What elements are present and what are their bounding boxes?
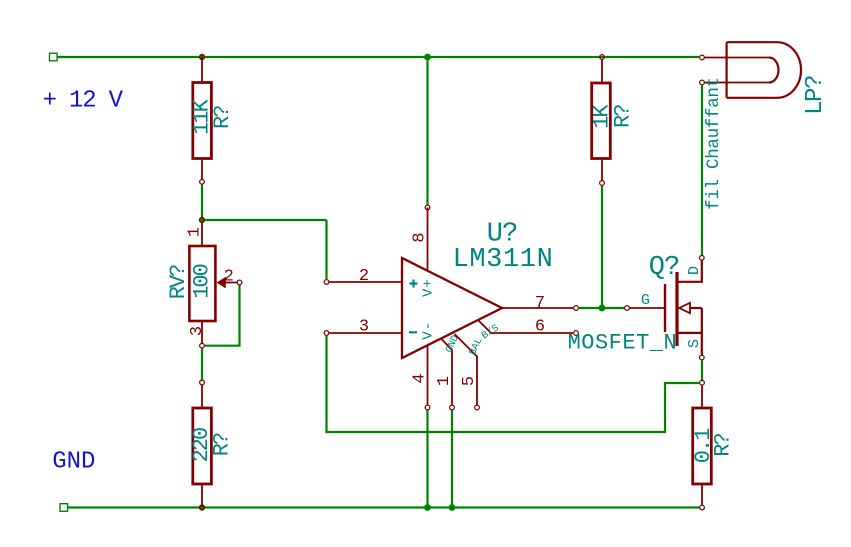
- junction gnd bus pin1: [449, 504, 456, 511]
- wire V+ supply: [426, 57, 428, 205]
- svg-text:100: 100: [189, 264, 214, 298]
- svg-text:LP?: LP?: [802, 76, 829, 115]
- wire lamp to drain: [701, 85, 703, 255]
- junction pot pin1: [199, 217, 205, 223]
- lamp LP? fil Chauffant: [700, 42, 829, 210]
- wire bottom bus: [68, 506, 699, 508]
- svg-text:GND: GND: [52, 449, 95, 476]
- source: [677, 333, 702, 355]
- wire top bus: [57, 56, 699, 58]
- drain: [677, 260, 702, 282]
- svg-text:2: 2: [359, 267, 369, 286]
- wire 1K bottom to output node: [601, 186, 603, 308]
- wire feedback pin3: [327, 336, 700, 432]
- svg-text:Q?: Q?: [649, 253, 679, 283]
- svg-text:3: 3: [359, 318, 369, 337]
- wire pin1 to gnd bus: [451, 410, 453, 507]
- junction gnd bus pin4: [424, 504, 431, 511]
- wire down to pin2: [325, 220, 327, 279]
- gate pin: [630, 307, 666, 309]
- pin 3: [330, 332, 403, 334]
- svg-text:8: 8: [410, 232, 429, 242]
- junction top at 11K: [199, 54, 205, 60]
- pin 6: [478, 320, 573, 333]
- svg-text:MOSFET_N: MOSFET_N: [568, 331, 678, 356]
- svg-text:2: 2: [224, 268, 234, 287]
- wire pin4 to gnd bus: [426, 410, 428, 507]
- wire pot3 to 220: [201, 349, 203, 381]
- resistor R? 1K: [590, 55, 636, 186]
- svg-text:V+: V+: [420, 278, 436, 297]
- svg-text:S: S: [686, 339, 703, 348]
- svg-text:D: D: [686, 266, 703, 275]
- wire pot top to opamp column: [202, 219, 327, 221]
- svg-text:R?: R?: [611, 105, 636, 128]
- svg-text:6: 6: [535, 318, 545, 337]
- resistor R? 220: [189, 380, 235, 507]
- wire source to 0.1: [701, 360, 703, 380]
- pin 7 output: [502, 307, 573, 309]
- svg-text:1: 1: [435, 376, 454, 386]
- gate bar: [664, 284, 666, 332]
- svg-text:+ 12 V: + 12 V: [43, 87, 124, 114]
- junction top at V+ column: [424, 54, 431, 61]
- svg-text:RV?: RV?: [166, 265, 191, 299]
- channel bar: [675, 272, 678, 346]
- resistor R? 0.1: [691, 380, 736, 510]
- pin 8: [427, 208, 429, 272]
- transistor Q? MOSFET_N: [568, 253, 705, 360]
- svg-text:R?: R?: [711, 434, 736, 457]
- node GND terminal square: [60, 504, 68, 512]
- resistor R? 11K: [190, 57, 236, 184]
- svg-text:7: 7: [535, 294, 545, 313]
- svg-text:3: 3: [188, 326, 207, 336]
- svg-text:fil Chauffant: fil Chauffant: [704, 77, 724, 210]
- input markers: [410, 282, 418, 284]
- svg-text:5: 5: [460, 376, 479, 386]
- svg-text:1: 1: [186, 227, 205, 237]
- wire wiper down: [205, 286, 240, 346]
- pin 5: [455, 334, 478, 405]
- svg-text:R?: R?: [210, 106, 235, 129]
- pin 4: [427, 345, 429, 405]
- junction gnd bus 220: [199, 504, 205, 510]
- svg-text:V-: V-: [420, 321, 436, 340]
- svg-text:4: 4: [410, 373, 429, 383]
- node +12V terminal square: [50, 53, 58, 61]
- body arrow: [679, 303, 690, 313]
- svg-text:G: G: [641, 292, 650, 309]
- svg-text:LM311N: LM311N: [453, 245, 554, 275]
- op-amp U? LM311N: [324, 205, 578, 410]
- wire 11K to pot: [201, 184, 203, 220]
- pin 2: [330, 281, 403, 283]
- outer shell: [727, 42, 801, 98]
- svg-text:R?: R?: [210, 433, 235, 456]
- potentiometer RV? 100: [166, 222, 242, 348]
- inner loop: [769, 58, 779, 83]
- pin 1: [705, 57, 770, 59]
- pin 2: [705, 82, 770, 84]
- wire output: [579, 307, 624, 309]
- junction output node: [599, 305, 606, 312]
- pin 1: [441, 339, 452, 405]
